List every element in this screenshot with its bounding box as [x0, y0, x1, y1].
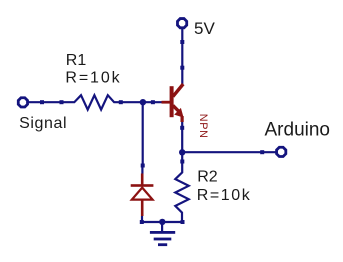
svg-text:Signal: Signal	[19, 115, 67, 132]
svg-text:R=10k: R=10k	[65, 70, 120, 87]
svg-text:R=10k: R=10k	[197, 187, 251, 204]
terminal 5V	[177, 19, 186, 28]
wire bendpoint square	[141, 164, 145, 168]
svg-text:R1: R1	[66, 52, 87, 69]
wire 5V to collector	[181, 29, 183, 84]
diode D1	[131, 174, 154, 217]
svg-text:Arduino: Arduino	[265, 119, 331, 140]
wire square to diode	[141, 166, 143, 174]
wire bendpoint square	[260, 150, 264, 154]
terminal Arduino	[277, 147, 286, 156]
wire bendpoint square	[180, 66, 184, 70]
wire diode to bottom rail	[141, 216, 143, 222]
node junction base	[140, 99, 146, 105]
wire bendpoint square	[40, 100, 44, 104]
resistor R1	[60, 95, 123, 109]
wire bendpoint square	[180, 126, 184, 130]
wire signal to R1	[28, 101, 62, 103]
wire base junction down to diode	[142, 102, 144, 166]
wire bendpoint square	[140, 220, 144, 224]
resistor R2	[175, 152, 188, 224]
wire bottom rail	[142, 221, 183, 223]
node junction ground	[159, 219, 165, 225]
ground	[150, 222, 175, 246]
wire to Arduino	[182, 151, 275, 153]
terminal Signal	[18, 98, 27, 107]
wire bendpoint square	[180, 40, 184, 44]
svg-text:5V: 5V	[194, 19, 215, 38]
wire bendpoint square	[151, 100, 155, 104]
node junction emitter	[179, 149, 185, 155]
wire emitter down	[181, 122, 183, 152]
wire R1 to transistor base	[121, 101, 162, 103]
svg-text:NPN: NPN	[197, 114, 209, 139]
transistor Q1 NPN	[162, 84, 184, 122]
svg-text:R2: R2	[197, 169, 218, 186]
